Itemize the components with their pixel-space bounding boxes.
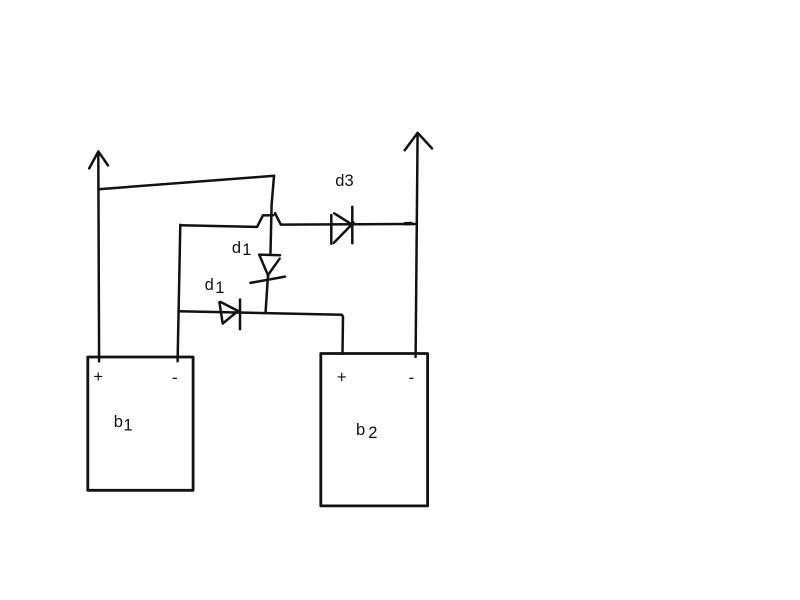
wire: bottom horizontal from b1- lead to b2 corner	[179, 311, 342, 315]
wire: corner down to b2 + terminal	[342, 315, 343, 354]
svg-text:+: +	[93, 367, 103, 386]
svg-text:1: 1	[242, 241, 251, 259]
label + of b1	[93, 367, 103, 386]
diode d3 (horizontal, pointing right)	[331, 207, 353, 244]
svg-text:-: -	[172, 368, 178, 387]
label d1 (lower diode)	[205, 276, 225, 297]
arrow terminal A1 (left output)	[89, 151, 108, 168]
svg-text:2: 2	[368, 424, 377, 442]
svg-text:d3: d3	[335, 172, 353, 190]
diode d1 (lower, horizontal pointing right)	[219, 300, 240, 330]
label d1 (upper diode)	[232, 239, 252, 259]
svg-text:1: 1	[123, 416, 132, 434]
svg-text:b: b	[114, 413, 123, 431]
wire: b1 - lead (vertical)	[178, 225, 181, 361]
wire: crossover hump right side continuing to d3 anode	[275, 213, 415, 224]
wire: diagonal from b1+ stem to node above d1	[99, 176, 275, 189]
wire: d1 upper cathode lead down to bottom wire	[266, 276, 268, 312]
label - of b2	[409, 368, 415, 387]
battery b1 (box)	[88, 357, 193, 490]
arrow terminal A2 (right output)	[405, 133, 432, 150]
label - of b1	[172, 368, 178, 387]
svg-text:d: d	[205, 276, 214, 294]
label b1	[114, 413, 133, 434]
wire: vertical drop from diagonal to d1 anode	[271, 176, 275, 253]
label + of b2	[337, 368, 347, 387]
svg-text:d: d	[232, 239, 241, 257]
diode d1 (upper, vertical pointing down)	[250, 255, 285, 283]
svg-text:b: b	[356, 421, 365, 439]
svg-text:+: +	[337, 368, 347, 387]
svg-text:-: -	[409, 368, 415, 387]
svg-text:1: 1	[215, 279, 224, 297]
label d3	[335, 172, 353, 190]
label b2	[356, 421, 377, 442]
battery b2 (box)	[321, 354, 428, 506]
wire: left arrow stem down to b1 + terminal	[97, 153, 100, 362]
wire: b2 - lead (vertical from arrow to b2 box)	[416, 134, 418, 358]
wire: horizontal from b1- lead with crossover hump (left part)	[180, 215, 273, 227]
